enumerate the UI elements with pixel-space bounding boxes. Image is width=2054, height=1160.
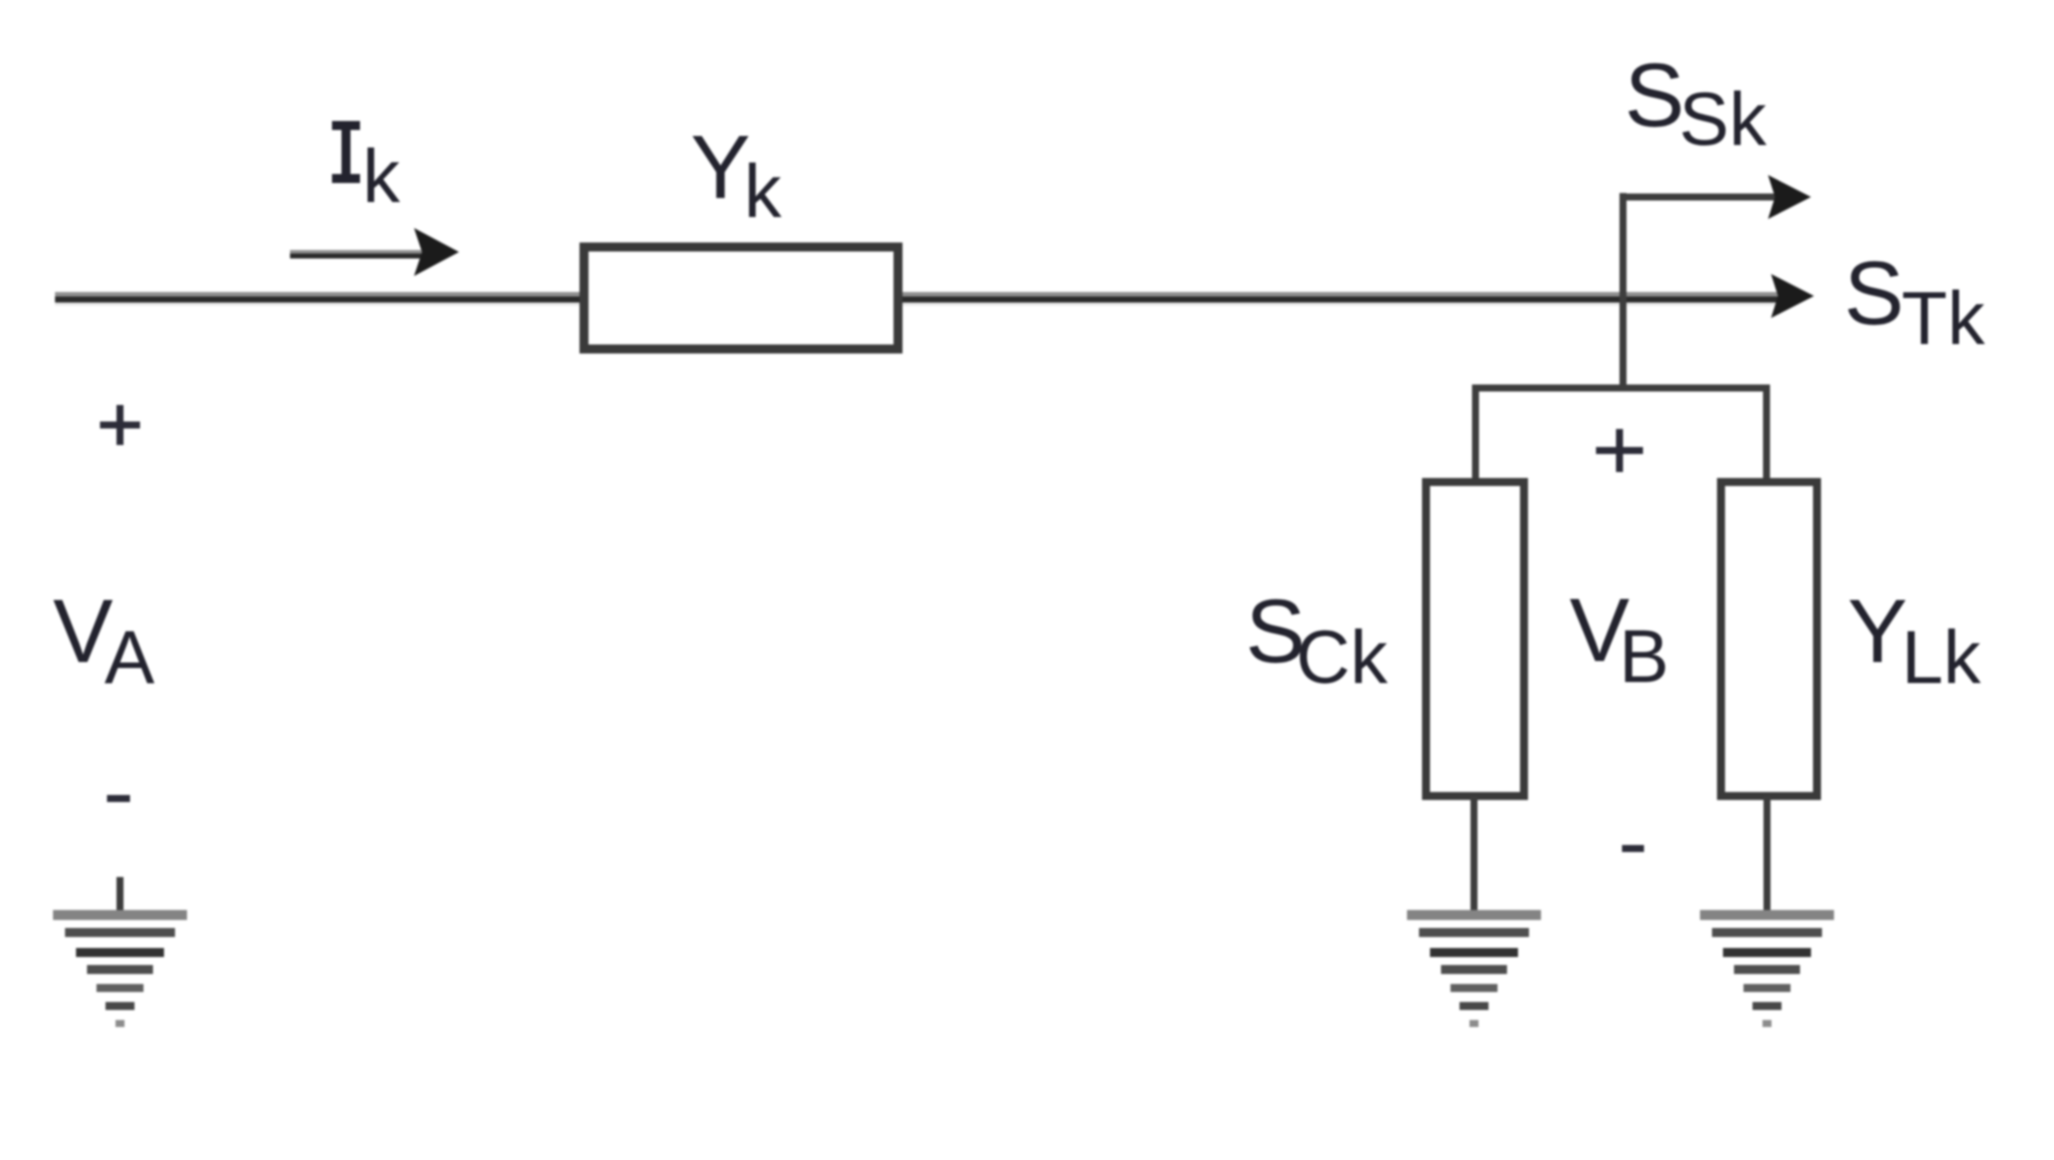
wire shunt top bar — [1472, 385, 1770, 392]
label SCk — [1246, 582, 1389, 699]
minus sign at VB — [1622, 845, 1644, 852]
label SSk — [1625, 46, 1768, 161]
label Ik — [332, 121, 401, 218]
svg-text:k: k — [744, 149, 782, 233]
svg-text:A: A — [105, 615, 155, 699]
svg-text:Sk: Sk — [1679, 77, 1767, 161]
plus sign at VB — [1596, 429, 1643, 472]
svg-text:S: S — [1844, 244, 1904, 344]
ground symbol below SCk — [1407, 910, 1541, 1027]
label VB — [1570, 581, 1670, 698]
wire main horizontal from node A to STk arrow — [55, 292, 1778, 306]
label YLk — [1848, 582, 1982, 699]
ground symbol at node A — [53, 910, 187, 1027]
label STk — [1844, 244, 1985, 360]
svg-text:S: S — [1625, 46, 1685, 146]
svg-text:k: k — [363, 134, 401, 218]
label VA — [53, 582, 155, 699]
plus sign at VA — [100, 405, 140, 445]
label Yk — [691, 118, 783, 233]
wire SSk branch horizontal — [1620, 194, 1776, 201]
wire stub to ground at node A — [117, 877, 124, 917]
shunt box YLk — [1721, 482, 1817, 796]
arrow STk — [1771, 274, 1814, 318]
wire drop to SCk box — [1472, 385, 1479, 482]
shunt box SCk — [1426, 482, 1524, 796]
ground symbol below YLk — [1700, 910, 1834, 1027]
wire stub below SCk box — [1471, 796, 1478, 917]
svg-text:Y: Y — [1848, 582, 1908, 682]
minus sign at VA — [107, 795, 130, 802]
svg-text:Y: Y — [691, 118, 751, 218]
svg-text:Lk: Lk — [1902, 615, 1982, 699]
wire stub below YLk box — [1764, 796, 1771, 917]
svg-text:B: B — [1619, 614, 1669, 698]
arrow SSk — [1768, 175, 1811, 219]
wire vertical at node B junction — [1620, 193, 1627, 391]
wire drop to YLk box — [1763, 385, 1770, 482]
current arrow Ik — [290, 228, 459, 276]
svg-text:Ck: Ck — [1296, 615, 1388, 699]
svg-text:Tk: Tk — [1902, 276, 1986, 360]
admittance box Yk — [584, 247, 898, 349]
